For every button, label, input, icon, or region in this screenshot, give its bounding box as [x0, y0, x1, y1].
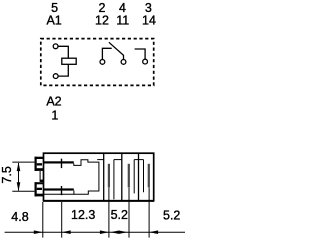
svg-text:11: 11: [116, 14, 129, 28]
svg-text:12.3: 12.3: [71, 208, 95, 222]
svg-text:A2: A2: [46, 94, 61, 108]
svg-text:1: 1: [51, 109, 58, 123]
svg-text:4.8: 4.8: [11, 210, 28, 224]
svg-text:14: 14: [142, 14, 156, 28]
svg-text:A1: A1: [46, 14, 61, 28]
svg-text:7.5: 7.5: [0, 166, 14, 183]
svg-text:5.2: 5.2: [163, 209, 180, 223]
svg-text:5.2: 5.2: [111, 208, 128, 222]
svg-text:12: 12: [95, 14, 109, 28]
